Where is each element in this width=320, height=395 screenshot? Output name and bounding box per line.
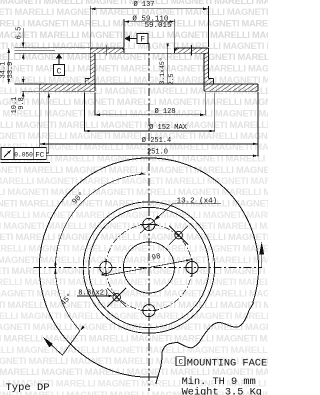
- bolt hole N: [143, 218, 155, 230]
- dim 6.5 vertical: [22, 28, 24, 48]
- centre bore O59: [123, 242, 174, 293]
- friction bottom left: [40, 90, 95, 92]
- svg-text:MAGNETI MARELLI MAGNETI MARELL: MAGNETI MARELLI MAGNETI MARELLI MAGNETI …: [0, 97, 268, 107]
- hatched cut material: right plate: [175, 48, 209, 53]
- vertical centreline: [148, 43, 150, 391]
- svg-text:F: F: [140, 35, 145, 44]
- W hole vertical tick: [105, 259, 107, 277]
- svg-text:MAGNETI MARELLI MAGNETI MARELL: MAGNETI MARELLI MAGNETI MARELLI MAGNETI …: [0, 187, 268, 197]
- S hole horizontal tick: [140, 310, 158, 312]
- 90deg dimension arc: [55, 174, 145, 268]
- svg-text:8.8(x2): 8.8(x2): [78, 290, 108, 298]
- right side pointer arrow at 3 oclock: [261, 255, 263, 268]
- svg-text:MAGNETI MARELLI MAGNETI MARELL: MAGNETI MARELLI MAGNETI MARELLI MAGNETI …: [0, 232, 268, 242]
- svg-text:MAGNETI MARELLI MAGNETI MARELL: MAGNETI MARELLI MAGNETI MARELLI MAGNETI …: [0, 176, 268, 186]
- svg-text:MAGNETI MARELLI MAGNETI MARELL: MAGNETI MARELLI MAGNETI MARELLI MAGNETI …: [0, 311, 268, 321]
- shoulder right outline: [208, 78, 213, 80]
- dim 98 across bolt circle: [107, 260, 192, 276]
- svg-text:MAGNETI MARELLI MAGNETI MARELL: MAGNETI MARELLI MAGNETI MARELLI MAGNETI …: [0, 131, 268, 141]
- svg-text:MAGNETI MARELLI MAGNETI MARELL: MAGNETI MARELLI MAGNETI MARELLI MAGNETI …: [0, 210, 268, 220]
- hat wall outer left: [89, 48, 91, 79]
- hat wall inner right: [203, 53, 205, 91]
- friction top surface full width: [15, 83, 259, 85]
- circle O137: [89, 207, 209, 327]
- svg-text:FC: FC: [35, 152, 45, 160]
- svg-text:13.2 (x4): 13.2 (x4): [177, 197, 218, 205]
- svg-text:MAGNETI MARELLI MAGNETI MARELL: MAGNETI MARELLI MAGNETI MARELLI MAGNETI …: [0, 322, 268, 332]
- svg-text:MAGNETI MARELLI MAGNETI MARELL: MAGNETI MARELLI MAGNETI MARELLI MAGNETI …: [0, 75, 268, 85]
- bolt hole S: [143, 305, 155, 317]
- section outline: plate bottom across bore: [90, 52, 204, 54]
- extension line mid stub: [15, 49, 56, 51]
- FC leader to friction surface: [46, 152, 49, 154]
- svg-text:C: C: [178, 359, 183, 367]
- svg-text:Type DP: Type DP: [6, 382, 50, 394]
- hatched cut material: right friction ring: [204, 84, 258, 91]
- section outline: plate top left: [90, 47, 124, 49]
- section outline: plate top right: [175, 47, 209, 49]
- bolt hole E: [186, 261, 198, 273]
- friction bottom right: [204, 90, 258, 92]
- hat wall inner left: [94, 53, 96, 91]
- svg-text:MOUNTING FACE: MOUNTING FACE: [187, 358, 267, 370]
- disc outer edge left: [39, 84, 41, 91]
- circle O152: [83, 202, 214, 333]
- bolt circle O98 dash-dot: [106, 224, 192, 310]
- svg-text:MAGNETI MARELLI MAGNETI MARELL: MAGNETI MARELLI MAGNETI MARELLI MAGNETI …: [0, 334, 268, 344]
- svg-text:MAGNETI MARELLI MAGNETI MARELL: MAGNETI MARELLI MAGNETI MARELLI MAGNETI …: [0, 41, 268, 51]
- shoulder left outline: [85, 78, 90, 80]
- datum C box and triangle: [54, 65, 65, 76]
- dim 10.1/9.8 vertical: [22, 77, 24, 85]
- bolt hole W: [100, 261, 112, 273]
- bore chamfer 45deg left: [121, 48, 124, 51]
- svg-text:2.5: 2.5: [168, 73, 175, 85]
- 45deg arc end zigzag with arrow: [46, 331, 81, 356]
- bore chamfer 45deg right: [175, 48, 178, 51]
- svg-text:MAGNETI MARELLI MAGNETI MARELL: MAGNETI MARELLI MAGNETI MARELLI MAGNETI …: [0, 64, 268, 74]
- horizontal centreline: [34, 266, 263, 268]
- outer circle O251 (bottom-right broken away): [39, 158, 258, 377]
- disc outer edge right: [257, 84, 259, 91]
- hatched cut material: left friction ring: [40, 84, 95, 91]
- hatched cut material: left plate: [90, 48, 124, 53]
- extension line friction bottom left: [22, 90, 40, 92]
- 45deg dimension arc: [55, 269, 80, 331]
- bore edge right: [174, 48, 176, 53]
- balance mark SW (8.8 x2): [113, 294, 121, 302]
- svg-text:MAGNETI MARELLI MAGNETI MARELL: MAGNETI MARELLI MAGNETI MARELLI MAGNETI …: [0, 289, 268, 299]
- svg-text:MAGNETI MARELLI MAGNETI MARELL: MAGNETI MARELLI MAGNETI MARELLI MAGNETI …: [0, 52, 268, 62]
- svg-text:3.1x45°: 3.1x45°: [158, 57, 166, 84]
- hatched cut material: left shoulder O152 step: [85, 79, 90, 84]
- hat wall outer right: [207, 48, 209, 79]
- hatched cut material: left hat wall: [90, 53, 95, 84]
- svg-text:Ø 137: Ø 137: [133, 0, 154, 9]
- bolt hole centreline ticks in section: [106, 45, 108, 56]
- svg-text:MAGNETI MARELLI MAGNETI MARELL: MAGNETI MARELLI MAGNETI MARELLI MAGNETI …: [0, 120, 268, 130]
- feature control frame 0.050 FC: [1, 148, 46, 160]
- svg-text:98: 98: [151, 253, 161, 263]
- svg-text:0.050: 0.050: [14, 151, 33, 158]
- svg-text:MAGNETI MARELLI MAGNETI MARELL: MAGNETI MARELLI MAGNETI MARELLI MAGNETI …: [0, 109, 268, 119]
- hatched cut material: right shoulder O152 step: [208, 79, 213, 84]
- svg-text:9.8: 9.8: [18, 97, 26, 110]
- svg-text:MAGNETI MARELLI MAGNETI MARELL: MAGNETI MARELLI MAGNETI MARELLI MAGNETI …: [0, 165, 268, 175]
- svg-text:MAGNETI MARELLI MAGNETI MARELL: MAGNETI MARELLI MAGNETI MARELLI MAGNETI …: [0, 345, 268, 355]
- svg-text:59.015: 59.015: [144, 22, 172, 30]
- svg-text:33.9: 33.9: [7, 62, 15, 79]
- balance mark NE (8.8 x2): [175, 231, 183, 239]
- svg-text:Weight 3.5 Kg: Weight 3.5 Kg: [182, 386, 262, 395]
- C mounting face note: [176, 357, 185, 366]
- E hole vertical tick: [191, 259, 193, 277]
- extension line plate-top level: [15, 47, 91, 49]
- svg-text:C: C: [57, 67, 62, 76]
- dim 34.1/33.9 vertical: [8, 48, 10, 84]
- N hole horizontal tick: [140, 223, 158, 225]
- bore edge left: [123, 48, 125, 53]
- datum F box and triangle: [124, 35, 130, 42]
- svg-text:MAGNETI MARELLI MAGNETI MARELL: MAGNETI MARELLI MAGNETI MARELLI MAGNETI …: [0, 221, 268, 231]
- hatched cut material: right hat wall: [204, 53, 208, 84]
- dim 3.1x45 and 2.5 leaders: [167, 44, 169, 85]
- break line (freehand torn edge): [156, 303, 254, 384]
- svg-text:6.5: 6.5: [15, 27, 23, 40]
- 45deg arc end arrow: [80, 326, 85, 331]
- extension line mounting face level: [15, 52, 95, 54]
